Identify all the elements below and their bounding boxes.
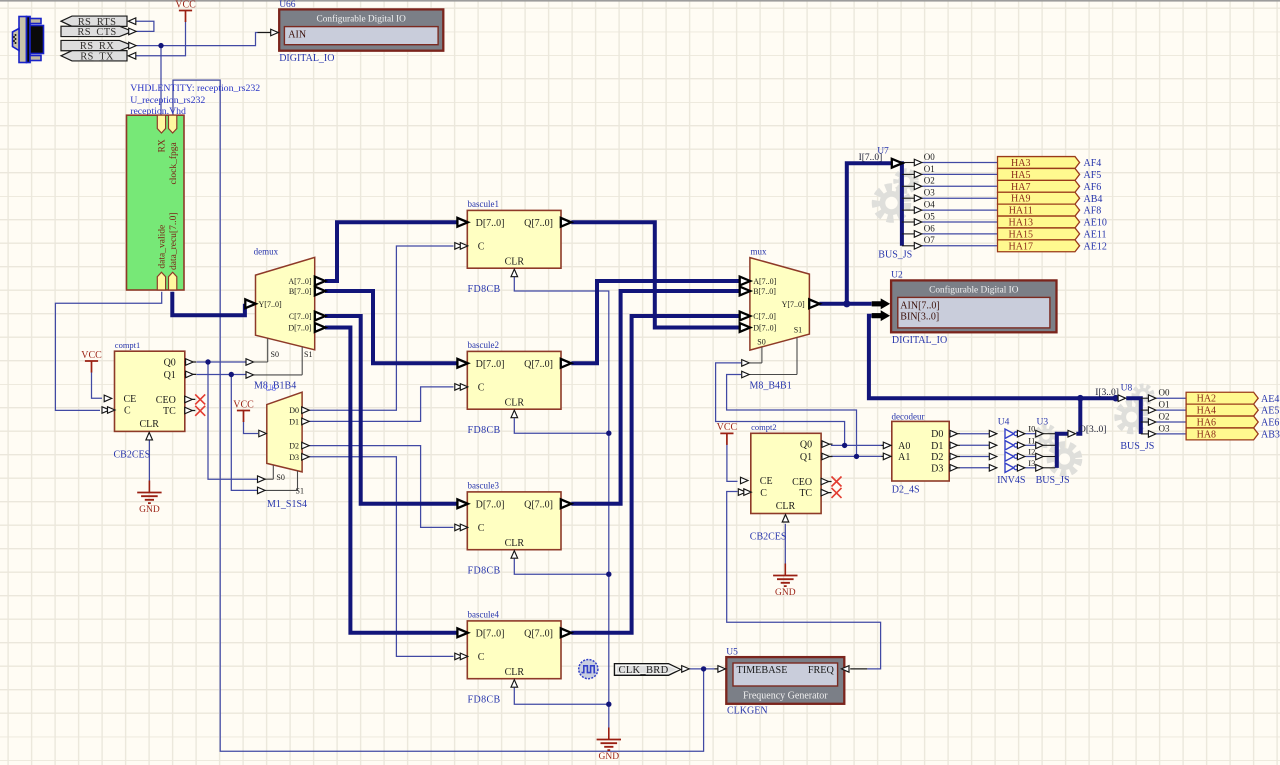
gear watermark U7 xyxy=(876,171,916,219)
svg-text:B[7..0]: B[7..0] xyxy=(753,287,776,296)
svg-text:FREQ: FREQ xyxy=(808,665,835,676)
pin arrow U5 FREQ xyxy=(842,666,850,673)
component compt1 CB2CES counter xyxy=(115,340,197,432)
port HA8 xyxy=(1186,428,1258,440)
wire inverter 0 out to U3 I0 xyxy=(1025,433,1037,435)
bus demux C to bascule3 D xyxy=(325,316,459,504)
svg-text:VCC: VCC xyxy=(233,399,254,410)
component U5 Frequency Generator xyxy=(715,647,868,704)
bus bascule2 Q to mux A xyxy=(571,281,740,363)
pin arrows decodeur xyxy=(883,430,957,471)
pin arrow U66 AIN xyxy=(271,29,279,36)
wire decodeur D1 to inverter xyxy=(960,444,989,446)
port HA9 xyxy=(998,192,1080,204)
svg-text:CLR: CLR xyxy=(505,256,525,267)
wire Q0 branch to M1_S1S4 S0 xyxy=(208,362,257,479)
pin arrows M1_S1S4 xyxy=(258,407,310,494)
svg-text:O7: O7 xyxy=(924,235,935,245)
svg-text:HA4: HA4 xyxy=(1197,406,1216,417)
pin arrows INV4S xyxy=(989,430,1025,471)
svg-text:S1: S1 xyxy=(304,350,312,359)
svg-text:U4: U4 xyxy=(998,418,1010,428)
svg-text:AE10: AE10 xyxy=(1084,218,1107,229)
svg-text:I[7..0]: I[7..0] xyxy=(859,153,883,163)
svg-text:AE5: AE5 xyxy=(1261,406,1279,417)
port HA4 xyxy=(1186,404,1258,416)
pin arrows bascule2 xyxy=(455,359,572,418)
wire CLR net to GND xyxy=(514,277,609,728)
svg-text:C[7..0]: C[7..0] xyxy=(753,312,776,321)
svg-text:U_reception_rs232: U_reception_rs232 xyxy=(130,95,205,106)
port HA6 xyxy=(1186,416,1258,428)
svg-text:O1: O1 xyxy=(1159,400,1170,410)
bus junction U8 input xyxy=(1112,395,1119,402)
svg-text:GND: GND xyxy=(599,752,620,762)
svg-text:O0: O0 xyxy=(924,152,935,162)
svg-text:CE: CE xyxy=(124,394,137,405)
bus to U8 input xyxy=(1126,398,1141,434)
pin arrows bascule3 xyxy=(455,499,572,558)
svg-text:M8_B4B1: M8_B4B1 xyxy=(750,381,792,392)
svg-text:Q[7..0]: Q[7..0] xyxy=(524,629,553,640)
bus AIN branch up to U7 xyxy=(847,163,898,304)
pin data_valide of reception block xyxy=(157,272,165,290)
junction CLR bascule4 xyxy=(606,702,611,707)
pin arrow U5 TIMEBASE xyxy=(718,666,726,673)
junction CLR bascule3 xyxy=(606,572,611,577)
svg-text:AE4: AE4 xyxy=(1261,394,1279,405)
wire VCC to compt2 CE xyxy=(727,444,738,481)
svg-text:A0: A0 xyxy=(898,441,910,452)
wire CLK_BRD to U5 TIMEBASE xyxy=(689,668,715,670)
svg-text:O2: O2 xyxy=(924,176,935,186)
svg-text:B[7..0]: B[7..0] xyxy=(289,287,312,296)
port HA3 xyxy=(998,157,1080,169)
wire bascule3 CLR xyxy=(514,559,609,575)
port RS_CTS xyxy=(61,26,133,38)
svg-text:O3: O3 xyxy=(1159,423,1170,433)
component U7 BUS_JS splitter xyxy=(859,146,936,246)
svg-text:I0: I0 xyxy=(1028,424,1035,434)
pin clock_fpga of reception block xyxy=(169,115,177,133)
svg-text:data_valide: data_valide xyxy=(158,225,168,269)
bus junction AIN/U7 xyxy=(843,300,850,307)
wire U8 O0 to port xyxy=(1156,397,1186,399)
wire M1_S1S4 D0 to bascule1 C xyxy=(309,246,453,410)
wire inverter 1 out to U3 I1 xyxy=(1025,444,1037,446)
svg-text:VCC: VCC xyxy=(81,350,102,361)
component bascule1 FD8CB register xyxy=(467,199,561,268)
pin arrows U8 xyxy=(1118,395,1156,437)
svg-text:TIMEBASE: TIMEBASE xyxy=(737,665,788,676)
bus bascule4 Q to mux C xyxy=(571,316,740,633)
svg-text:bascule1: bascule1 xyxy=(468,199,500,209)
port RS_RX xyxy=(61,40,133,52)
svg-text:decodeur: decodeur xyxy=(892,411,925,421)
wire U5 FREQ to compt2 C xyxy=(727,492,881,669)
component U2 Configurable Digital IO xyxy=(891,270,1056,332)
pin arrow U2 BIN xyxy=(872,311,890,321)
power GND xyxy=(137,481,161,516)
wire U7 O0 to port xyxy=(922,162,997,164)
pin arrow RS_RX xyxy=(129,42,137,49)
pin arrow RS_CTS xyxy=(129,28,137,35)
wire Q0 branch to mux S0 xyxy=(716,363,845,446)
svg-text:AB3: AB3 xyxy=(1261,430,1280,441)
bus demux D to bascule4 D xyxy=(325,328,459,633)
junction compt2 Q1 xyxy=(854,454,859,459)
svg-text:RS_CTS: RS_CTS xyxy=(77,27,116,38)
svg-text:D0: D0 xyxy=(289,406,299,415)
svg-text:AE11: AE11 xyxy=(1084,230,1107,241)
gear watermark U8 xyxy=(1118,386,1152,431)
svg-text:demux: demux xyxy=(254,246,279,256)
svg-text:D[7..0]: D[7..0] xyxy=(476,218,505,229)
component U_reception_rs232 VHDL entity xyxy=(127,83,261,290)
svg-text:TC: TC xyxy=(163,406,176,417)
svg-text:HA8: HA8 xyxy=(1197,429,1216,440)
svg-text:AB4: AB4 xyxy=(1084,194,1103,205)
svg-text:C: C xyxy=(478,383,485,394)
svg-text:C: C xyxy=(760,488,767,499)
svg-text:C: C xyxy=(478,242,485,253)
wire U7 O3 to port xyxy=(922,197,997,199)
svg-text:A1: A1 xyxy=(898,452,910,463)
svg-text:VHDLENTITY: reception_rs232: VHDLENTITY: reception_rs232 xyxy=(130,83,260,94)
wire U7 O6 to port xyxy=(922,233,997,235)
pin arrows bascule4 xyxy=(455,628,572,687)
svg-text:CLR: CLR xyxy=(776,501,796,512)
svg-text:AF4: AF4 xyxy=(1084,158,1102,169)
component U66 Configurable Digital IO xyxy=(258,0,444,50)
wire compt1 Q1 to demux S1 xyxy=(197,374,247,376)
power GND xyxy=(597,728,621,763)
svg-text:CLR: CLR xyxy=(505,667,525,678)
svg-text:GND: GND xyxy=(139,505,160,515)
port HA2 xyxy=(1186,392,1258,404)
svg-text:U6: U6 xyxy=(265,383,276,393)
svg-text:data_recu[7..0]: data_recu[7..0] xyxy=(169,213,179,271)
svg-text:VCC: VCC xyxy=(175,0,196,10)
svg-text:HA5: HA5 xyxy=(1011,170,1030,181)
svg-text:GND: GND xyxy=(775,588,796,598)
bus mux Y to U2 AIN xyxy=(819,302,871,306)
junction CLR bascule2 xyxy=(606,431,611,436)
clock waveform icon xyxy=(579,660,598,679)
wire U7 O1 to port xyxy=(922,173,997,175)
pin arrow CLK_BRD xyxy=(682,666,690,673)
svg-text:INV4S: INV4S xyxy=(997,475,1025,486)
svg-text:clock_fpga: clock_fpga xyxy=(168,142,179,185)
svg-text:CEO: CEO xyxy=(156,395,176,406)
port HA13 xyxy=(998,216,1080,228)
svg-text:HA11: HA11 xyxy=(1009,206,1033,217)
svg-text:HA17: HA17 xyxy=(1009,241,1033,252)
svg-text:D2_4S: D2_4S xyxy=(892,485,920,496)
svg-text:I3: I3 xyxy=(1028,458,1035,468)
svg-text:Q0: Q0 xyxy=(164,358,176,369)
svg-text:DIGITAL_IO: DIGITAL_IO xyxy=(279,53,334,64)
wire compt2 Q1 to decodeur A1 xyxy=(831,455,882,457)
wire U7 O7 to port xyxy=(922,245,997,247)
svg-text:I[3..0]: I[3..0] xyxy=(1095,388,1119,398)
svg-text:CB2CES: CB2CES xyxy=(114,450,151,461)
pin arrow RS_RTS xyxy=(128,18,136,25)
svg-text:CE: CE xyxy=(760,476,773,487)
power VCC xyxy=(717,422,738,445)
svg-text:bascule4: bascule4 xyxy=(468,610,500,620)
power GND xyxy=(773,564,797,599)
pin arrows U7 xyxy=(892,159,922,249)
wire RS_TX to VCC xyxy=(135,21,186,56)
wire M1_S1S4 D1 to bascule2 C xyxy=(309,387,453,422)
svg-text:D[7..0]: D[7..0] xyxy=(476,500,505,511)
wire Q1 branch to M1_S1S4 S1 xyxy=(231,375,257,491)
wire U7 O2 to port xyxy=(922,185,997,187)
svg-text:FD8CB: FD8CB xyxy=(468,565,501,576)
svg-text:AF8: AF8 xyxy=(1084,206,1102,217)
junction compt2 Q0 xyxy=(842,443,847,448)
svg-text:C: C xyxy=(478,523,485,534)
svg-text:mux: mux xyxy=(751,247,768,257)
svg-text:BIN[3..0]: BIN[3..0] xyxy=(900,312,939,323)
port CLK_BRD xyxy=(614,664,680,677)
svg-text:HA13: HA13 xyxy=(1009,218,1033,229)
component demux M1_S1S4 xyxy=(265,392,309,495)
svg-text:S1: S1 xyxy=(794,326,802,335)
wire decodeur D0 to inverter xyxy=(960,433,989,435)
svg-text:AE12: AE12 xyxy=(1084,241,1107,252)
svg-text:A[7..0]: A[7..0] xyxy=(288,277,311,286)
no-connect X on compt1 CEO/TC xyxy=(195,394,205,415)
svg-text:O4: O4 xyxy=(924,200,935,210)
wire compt2 Q0 to decodeur A0 xyxy=(831,444,882,446)
svg-text:Y[7..0]: Y[7..0] xyxy=(259,300,282,309)
svg-text:O0: O0 xyxy=(1159,388,1170,398)
component U8 BUS_JS splitter xyxy=(1095,383,1170,434)
component bascule2 FD8CB register xyxy=(467,340,561,409)
wire bascule2 CLR xyxy=(514,418,609,433)
component bascule3 FD8CB register xyxy=(467,481,561,550)
svg-text:AF5: AF5 xyxy=(1084,170,1102,181)
svg-text:D1: D1 xyxy=(931,441,943,452)
svg-text:S0: S0 xyxy=(757,337,765,346)
pin arrows compt2 xyxy=(738,441,829,522)
svg-text:O1: O1 xyxy=(924,164,935,174)
power VCC xyxy=(233,399,254,422)
wire decodeur D2 to inverter xyxy=(960,456,989,458)
svg-text:D[7..0]: D[7..0] xyxy=(476,629,505,640)
wire inverter 2 out to U3 I2 xyxy=(1025,456,1037,458)
svg-text:BUS_JS: BUS_JS xyxy=(1036,475,1070,486)
wire M1_S1S4 D2 to bascule3 C xyxy=(309,446,453,528)
DB9 serial connector icon xyxy=(13,17,44,63)
svg-text:O[3..0]: O[3..0] xyxy=(1079,425,1106,435)
svg-text:BUS_JS: BUS_JS xyxy=(878,249,912,260)
wire bascule4 CLR xyxy=(514,688,609,705)
wire inverter 3 out to U3 I3 xyxy=(1025,467,1037,469)
svg-text:A[7..0]: A[7..0] xyxy=(753,277,776,286)
junction Q1/S1 xyxy=(229,372,234,377)
wire clock_fpga distribution loop xyxy=(173,80,704,751)
wire M1_S1S4 D3 to bascule4 C xyxy=(309,457,453,657)
bus bascule1 Q to mux D xyxy=(571,222,740,327)
svg-text:FD8CB: FD8CB xyxy=(468,425,501,436)
bus U7 trunk xyxy=(900,161,904,246)
wire Q1 branch to mux S1 xyxy=(727,375,857,457)
svg-text:D3: D3 xyxy=(289,453,299,462)
svg-text:O2: O2 xyxy=(1159,411,1170,421)
svg-text:Q[7..0]: Q[7..0] xyxy=(524,218,553,229)
pin RX of reception block xyxy=(157,115,165,133)
svg-text:M1_S1S4: M1_S1S4 xyxy=(267,499,307,510)
svg-text:HA15: HA15 xyxy=(1009,229,1033,240)
svg-text:AIN[7..0]: AIN[7..0] xyxy=(900,300,939,311)
wire VCC to M1_S1S4 input xyxy=(244,421,259,434)
svg-text:U5: U5 xyxy=(726,647,738,657)
wire U8 O2 to port xyxy=(1156,421,1186,423)
pin arrows compt1 xyxy=(102,359,193,440)
wire U7 O5 to port xyxy=(922,221,997,223)
pin data_recu of reception block xyxy=(169,272,177,290)
power VCC xyxy=(175,0,196,22)
svg-text:BUS_JS: BUS_JS xyxy=(1120,441,1154,452)
svg-text:C: C xyxy=(124,406,131,417)
svg-text:AE6: AE6 xyxy=(1261,418,1279,429)
wire RS_RX to U66 AIN and reception RX xyxy=(137,33,258,46)
pin arrows demux xyxy=(245,277,325,379)
svg-text:D[7..0]: D[7..0] xyxy=(288,324,311,333)
port HA11 xyxy=(998,204,1080,216)
svg-text:Configurable Digital IO: Configurable Digital IO xyxy=(317,13,407,24)
svg-text:CEO: CEO xyxy=(792,477,812,488)
wire compt2 CLR to GND xyxy=(784,524,786,564)
svg-text:FD8CB: FD8CB xyxy=(468,284,501,295)
port HA5 xyxy=(998,168,1080,180)
wire U8 O3 to port xyxy=(1156,433,1186,435)
bus U2 BIN net xyxy=(869,316,1120,399)
svg-text:HA2: HA2 xyxy=(1197,394,1216,405)
port HA7 xyxy=(998,180,1080,192)
svg-text:C[7..0]: C[7..0] xyxy=(289,312,312,321)
component mux M8_B4B1 xyxy=(750,247,810,375)
svg-text:D0: D0 xyxy=(931,429,943,440)
svg-text:Configurable Digital IO: Configurable Digital IO xyxy=(929,285,1019,296)
svg-text:CLKGEN: CLKGEN xyxy=(727,706,768,717)
svg-text:Q[7..0]: Q[7..0] xyxy=(524,359,553,370)
port HA15 xyxy=(998,228,1080,240)
svg-text:FD8CB: FD8CB xyxy=(468,694,501,705)
svg-text:D[7..0]: D[7..0] xyxy=(753,324,776,333)
svg-text:D3: D3 xyxy=(931,463,943,474)
svg-text:D[7..0]: D[7..0] xyxy=(476,359,505,370)
svg-text:VCC: VCC xyxy=(717,422,738,433)
svg-text:CLR: CLR xyxy=(505,538,525,549)
svg-text:compt2: compt2 xyxy=(751,422,777,432)
svg-text:CB2CES: CB2CES xyxy=(750,532,787,543)
wire U7 O4 to port xyxy=(922,209,997,211)
svg-text:RS_TX: RS_TX xyxy=(80,51,114,62)
port RS_RTS xyxy=(61,16,127,28)
pin arrows mux xyxy=(740,277,820,378)
pin arrow RS_TX xyxy=(128,53,136,60)
wire decodeur D3 to inverter xyxy=(960,467,989,469)
bus demux A to bascule1 D xyxy=(325,222,459,281)
bus bascule3 Q to mux B xyxy=(571,291,740,504)
svg-text:O3: O3 xyxy=(924,188,935,198)
svg-text:HA3: HA3 xyxy=(1011,158,1030,169)
svg-text:CLK_BRD: CLK_BRD xyxy=(619,665,669,676)
pin arrows bascule1 xyxy=(455,218,572,277)
svg-text:AIN: AIN xyxy=(288,29,306,40)
svg-text:D2: D2 xyxy=(931,452,943,463)
svg-text:I2: I2 xyxy=(1028,447,1035,457)
svg-text:RX: RX xyxy=(158,139,168,152)
svg-text:C: C xyxy=(478,652,485,663)
wire U8 O1 to port xyxy=(1156,409,1186,411)
svg-text:DIGITAL_IO: DIGITAL_IO xyxy=(892,335,947,346)
svg-text:Q[7..0]: Q[7..0] xyxy=(524,500,553,511)
port RS_TX xyxy=(61,51,127,63)
svg-text:Y[7..0]: Y[7..0] xyxy=(782,300,805,309)
wire compt1 Q0 to demux S0 xyxy=(197,361,247,363)
svg-text:U8: U8 xyxy=(1121,383,1133,393)
wire RX branch down to reception block xyxy=(160,46,162,116)
wire data_valide to compt1 C xyxy=(55,292,161,411)
component bascule4 FD8CB register xyxy=(467,610,561,679)
wire compt1 CLR to GND xyxy=(148,440,150,480)
svg-text:HA6: HA6 xyxy=(1197,418,1216,429)
no-connect X on compt2 CEO/TC xyxy=(832,477,842,498)
svg-text:HA9: HA9 xyxy=(1011,194,1030,205)
svg-text:S0: S0 xyxy=(271,350,279,359)
svg-text:Q1: Q1 xyxy=(164,370,176,381)
junction Q0/S0 xyxy=(205,359,210,364)
svg-text:Q0: Q0 xyxy=(800,440,812,451)
svg-text:D2: D2 xyxy=(289,442,299,451)
bus data_recu to demux Y xyxy=(172,292,245,316)
svg-text:Q1: Q1 xyxy=(800,452,812,463)
junction CLK_BRD xyxy=(701,666,706,671)
pin arrow U2 AIN xyxy=(872,299,890,309)
svg-text:bascule2: bascule2 xyxy=(468,340,500,350)
svg-text:TC: TC xyxy=(799,488,812,499)
svg-text:CLR: CLR xyxy=(139,419,159,430)
svg-text:CLR: CLR xyxy=(505,397,525,408)
power VCC xyxy=(81,350,102,373)
svg-text:S0: S0 xyxy=(276,473,284,482)
svg-text:O5: O5 xyxy=(924,211,935,221)
svg-text:O6: O6 xyxy=(924,223,935,233)
svg-text:U2: U2 xyxy=(891,270,903,280)
svg-text:HA7: HA7 xyxy=(1011,182,1030,193)
wire VCC to compt1 CE xyxy=(92,372,103,398)
component compt2 CB2CES counter xyxy=(751,422,833,514)
svg-text:I1: I1 xyxy=(1028,435,1035,445)
junction RS_RX xyxy=(158,43,163,48)
svg-text:compt1: compt1 xyxy=(115,340,141,350)
svg-text:Frequency Generator: Frequency Generator xyxy=(743,691,828,702)
svg-text:U3: U3 xyxy=(1037,418,1049,428)
gear watermark U3 xyxy=(1037,427,1079,474)
pin arrows U3 xyxy=(1036,430,1076,471)
svg-text:bascule3: bascule3 xyxy=(468,481,500,491)
component U4 INV4S quad inverter xyxy=(998,418,1018,473)
svg-text:AF6: AF6 xyxy=(1084,182,1102,193)
bus demux B to bascule2 D xyxy=(325,291,459,363)
component demux M8_B1B4 xyxy=(254,246,315,375)
bus U3 output O[3..0] xyxy=(1057,434,1068,468)
